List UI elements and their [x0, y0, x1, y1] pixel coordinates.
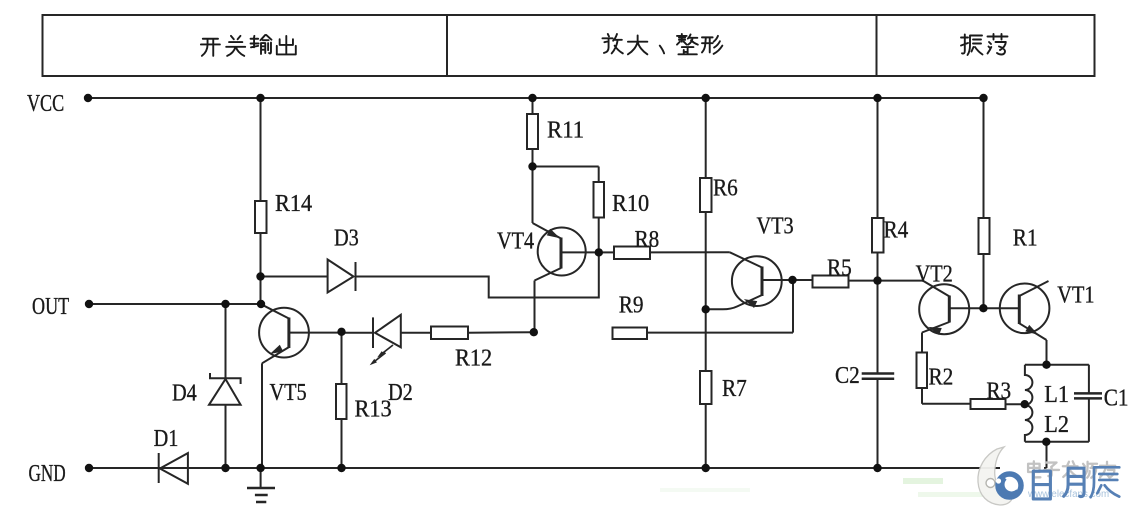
svg-text:C1: C1: [1104, 386, 1129, 412]
svg-text:R13: R13: [355, 397, 392, 423]
svg-text:D3: D3: [334, 226, 359, 252]
svg-text:L2: L2: [1044, 412, 1069, 438]
svg-text:L1: L1: [1044, 382, 1069, 408]
svg-text:R3: R3: [986, 379, 1011, 405]
svg-text:R7: R7: [722, 376, 747, 402]
svg-text:R10: R10: [612, 191, 649, 217]
svg-text:R11: R11: [547, 118, 584, 144]
svg-text:D2: D2: [388, 380, 413, 406]
svg-text:R9: R9: [619, 293, 644, 319]
svg-text:D4: D4: [172, 381, 197, 407]
svg-text:OUT: OUT: [32, 294, 69, 320]
svg-text:R1: R1: [1013, 226, 1038, 252]
svg-text:VT1: VT1: [1057, 283, 1094, 309]
svg-text:R4: R4: [884, 218, 909, 244]
svg-text:R6: R6: [713, 176, 738, 202]
svg-text:VT4: VT4: [497, 229, 534, 255]
svg-text:VT2: VT2: [916, 262, 953, 288]
svg-text:R8: R8: [635, 227, 660, 253]
svg-text:R14: R14: [275, 191, 312, 217]
svg-text:R5: R5: [827, 256, 852, 282]
svg-text:VT5: VT5: [270, 380, 307, 406]
svg-text:GND: GND: [29, 461, 66, 487]
svg-text:R2: R2: [929, 365, 954, 391]
svg-text:R12: R12: [455, 346, 492, 372]
svg-text:VT3: VT3: [757, 214, 794, 240]
svg-text:VCC: VCC: [27, 91, 64, 117]
svg-text:D1: D1: [154, 426, 179, 452]
svg-text:C2: C2: [835, 363, 860, 389]
